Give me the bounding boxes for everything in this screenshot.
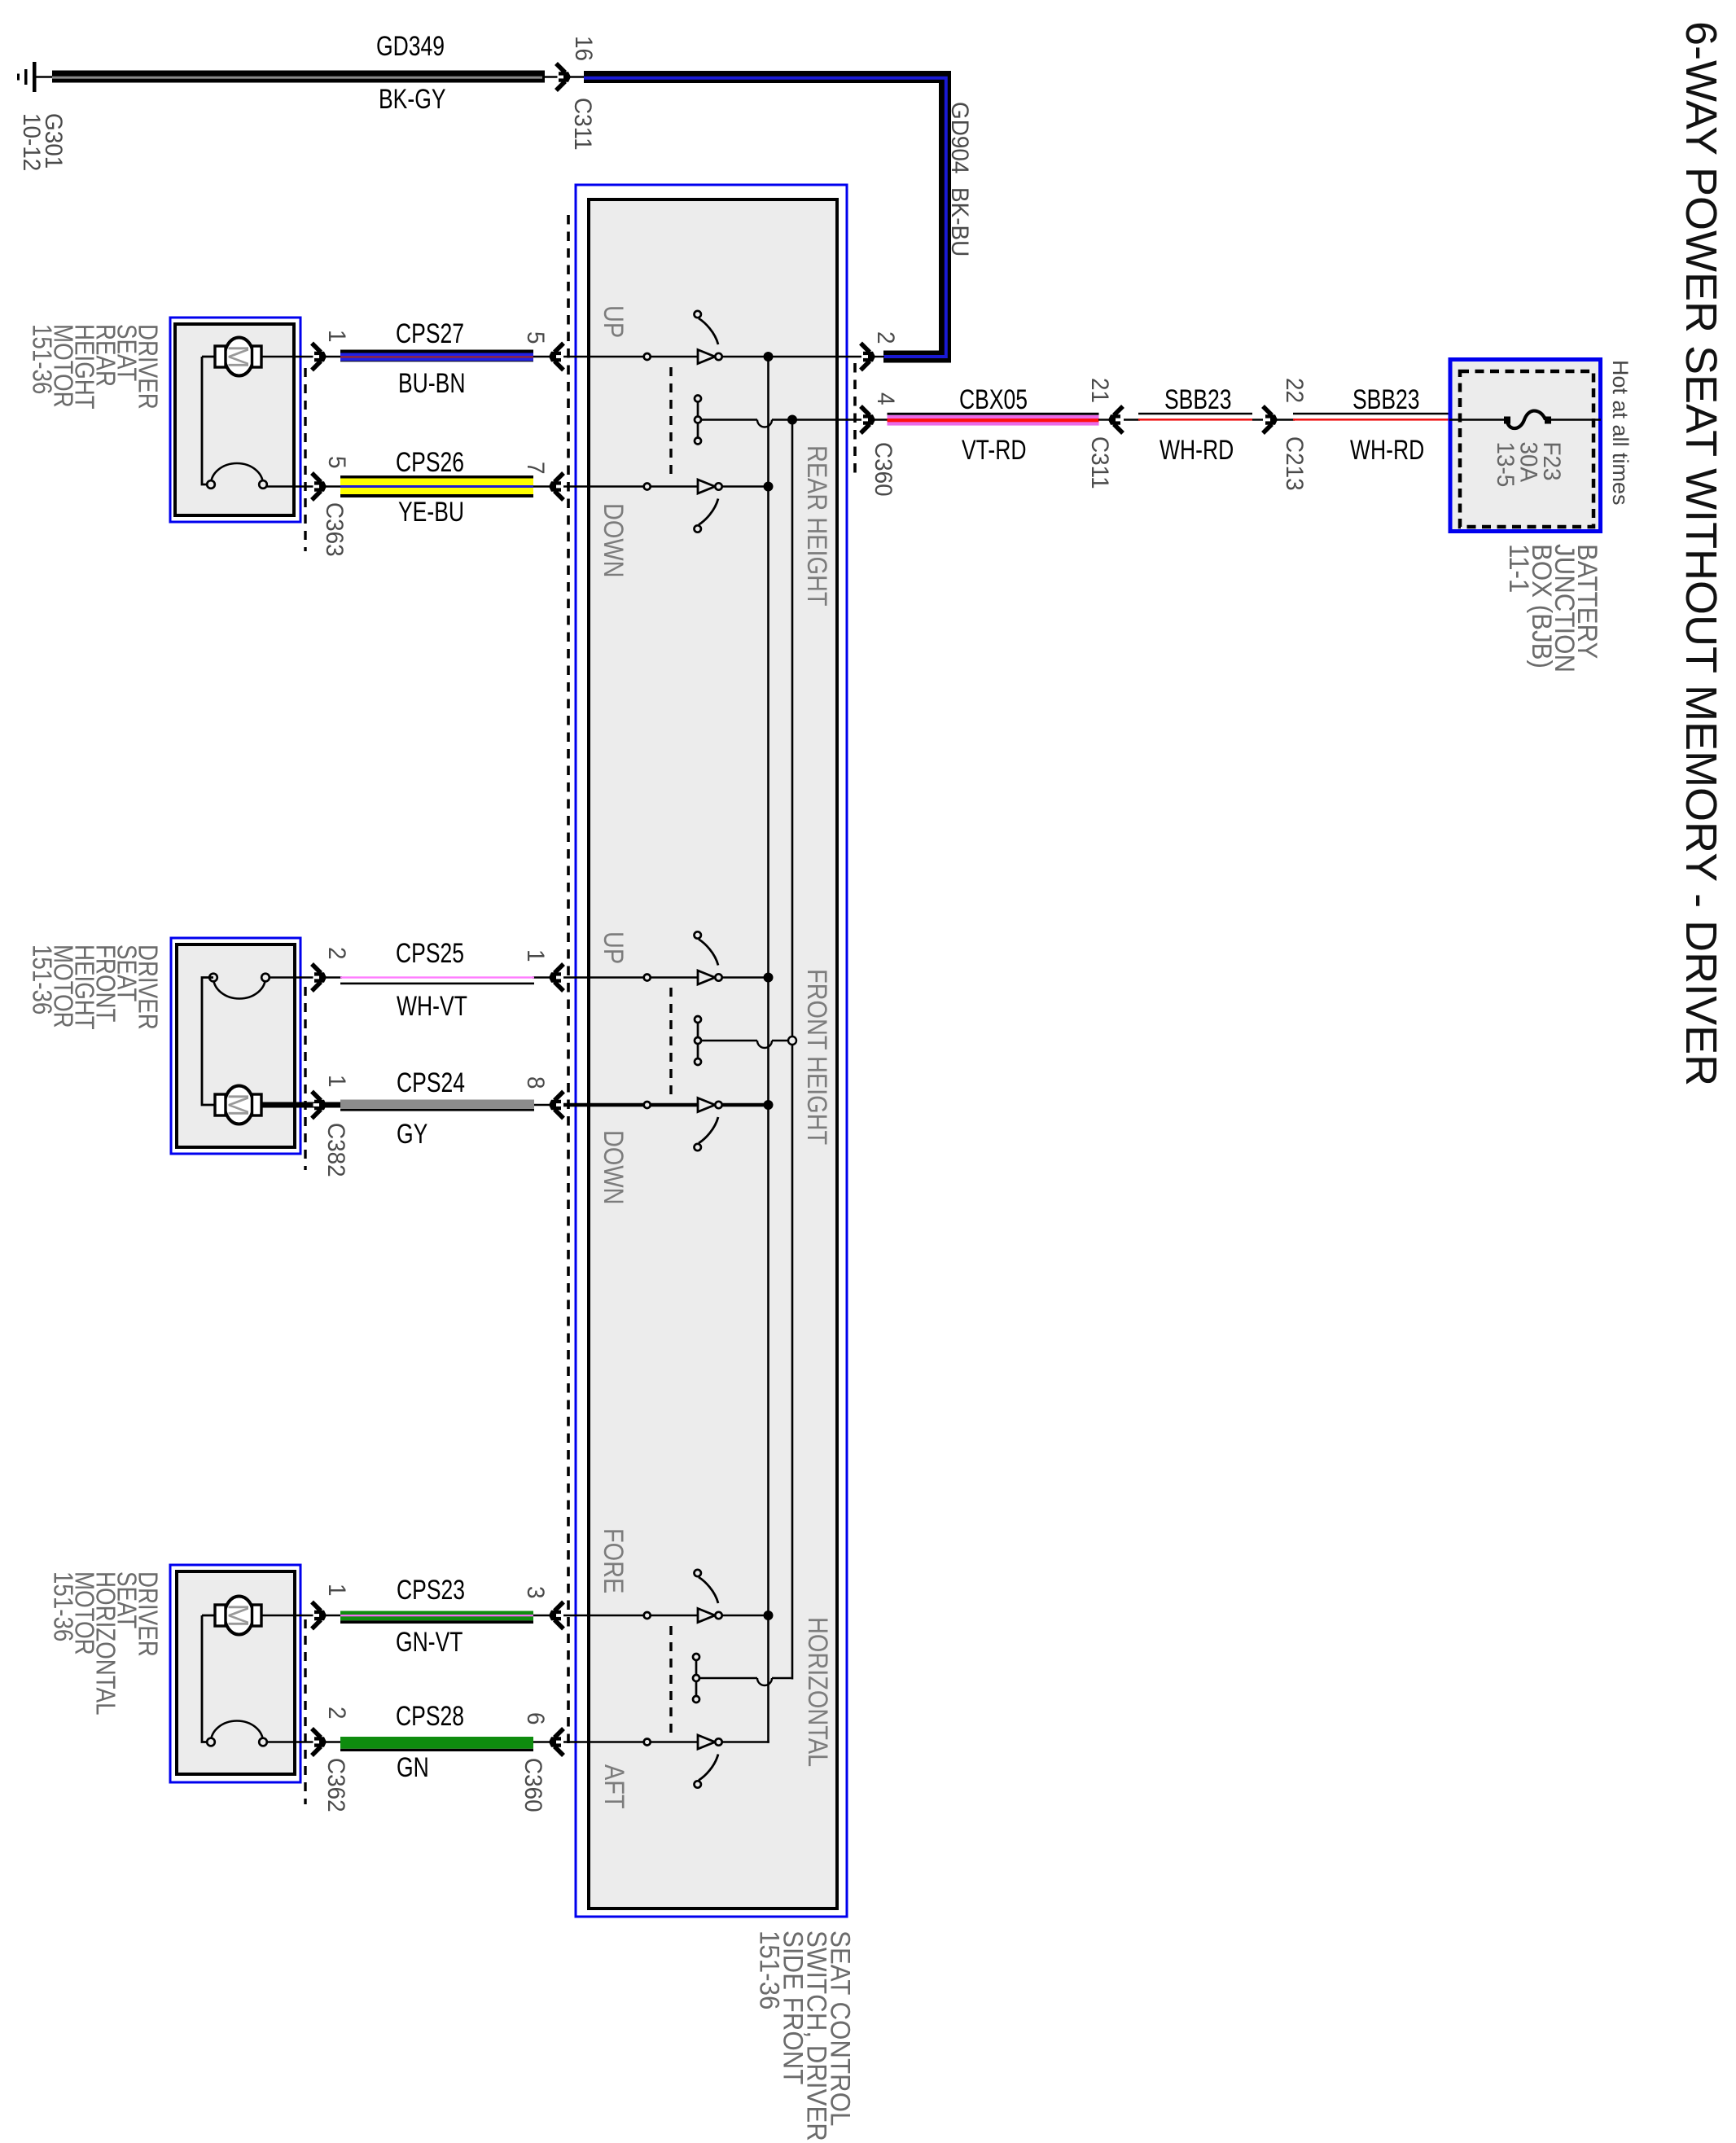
svg-text:CPS28: CPS28 xyxy=(396,1701,464,1732)
svg-text:WH-VT: WH-VT xyxy=(397,991,467,1022)
svg-text:AFT: AFT xyxy=(598,1764,630,1809)
wire SBB23 WH-RD (segment 1) xyxy=(1124,413,1263,421)
wire row4 DOWN front (thick) xyxy=(563,1103,702,1107)
svg-text:CPS26: CPS26 xyxy=(396,447,464,478)
wire CPS28 GN xyxy=(326,1737,550,1751)
junction row4 xyxy=(764,1100,774,1110)
linkage dashed rear xyxy=(669,367,672,480)
wire GD349 BK-GY xyxy=(52,71,568,83)
svg-text:C311: C311 xyxy=(569,98,596,151)
bus A vertical xyxy=(767,357,769,1743)
svg-text:C362: C362 xyxy=(322,1758,349,1812)
arrow pin5 motor1 xyxy=(312,473,327,500)
battery junction box BJB xyxy=(1450,360,1601,532)
connector C363 dashed xyxy=(304,368,306,551)
wire row1 UP rear xyxy=(563,356,702,357)
svg-text:GD349: GD349 xyxy=(376,31,445,62)
motor box front height xyxy=(171,938,300,1154)
wire row3 UP front xyxy=(563,976,702,978)
svg-text:CPS25: CPS25 xyxy=(396,938,464,969)
svg-text:151-36: 151-36 xyxy=(27,944,57,1015)
svg-text:C360: C360 xyxy=(519,1758,546,1812)
svg-text:FRONT HEIGHT: FRONT HEIGHT xyxy=(801,969,833,1145)
motor M3 xyxy=(202,1615,217,1617)
svg-text:151-36: 151-36 xyxy=(754,1930,786,2009)
cell contacts front height xyxy=(644,931,722,984)
svg-text:151-36: 151-36 xyxy=(48,1571,78,1641)
linkage dashed horizontal xyxy=(669,1626,672,1736)
svg-text:1: 1 xyxy=(323,1075,350,1088)
arrow pin2 motor3 xyxy=(312,1729,327,1755)
svg-text:1: 1 xyxy=(323,1584,350,1597)
svg-text:UP: UP xyxy=(598,305,629,338)
svg-text:11-1: 11-1 xyxy=(1504,544,1536,593)
wire row6 AFT xyxy=(563,1741,702,1742)
connector C360 dashed boundary left xyxy=(567,215,570,1743)
junction row5 xyxy=(764,1611,774,1620)
junction row3 xyxy=(764,973,774,983)
pin 3 arrow xyxy=(549,1602,563,1629)
wire CPS27 BU-BN xyxy=(326,350,550,362)
connector arrow 22 C213 xyxy=(1263,406,1278,433)
label BATTERY JUNCTION BOX (BJB) 11-1 xyxy=(1504,544,1604,673)
bus B vertical xyxy=(791,420,794,1680)
motor M2 xyxy=(202,978,217,1106)
svg-text:2: 2 xyxy=(872,331,899,344)
wire CPS25 WH-VT xyxy=(326,976,550,984)
switch control box xyxy=(576,185,847,1917)
wire row5 FORE xyxy=(563,1615,702,1616)
svg-text:UP: UP xyxy=(598,931,629,964)
svg-text:BK-GY: BK-GY xyxy=(379,84,446,115)
label DRIVER SEAT HORIZONTAL MOTOR 151-36 xyxy=(48,1571,163,1716)
svg-text:FORE: FORE xyxy=(598,1528,629,1593)
svg-text:8: 8 xyxy=(522,1076,549,1089)
cell contacts rear height xyxy=(644,311,722,364)
ground G301 xyxy=(17,62,54,92)
svg-text:6: 6 xyxy=(522,1712,549,1725)
svg-text:151-36: 151-36 xyxy=(27,324,57,394)
arrow pin1 motor3 xyxy=(312,1602,327,1629)
label SEAT CONTROL SWITCH, DRIVER SIDE FRONT 151-36 xyxy=(754,1930,857,2141)
motor box horizontal xyxy=(170,1565,300,1782)
wire CPS23 GN-VT xyxy=(326,1611,550,1624)
wire SBB23 WH-RD (segment 2) xyxy=(1277,413,1449,421)
wire stub pin4 to CBX05 xyxy=(875,419,889,420)
svg-text:1: 1 xyxy=(522,949,549,962)
neutral contacts rear + feed to pin4 xyxy=(695,396,701,445)
svg-text:21: 21 xyxy=(1086,378,1113,403)
fuse F23 30A xyxy=(1504,411,1551,429)
svg-text:CPS24: CPS24 xyxy=(397,1067,465,1098)
wire row2 DOWN rear xyxy=(563,485,702,487)
motor box rear height xyxy=(170,318,300,522)
svg-text:C363: C363 xyxy=(321,502,348,557)
label DRIVER SEAT REAR HEIGHT MOTOR 151-36 xyxy=(27,324,163,410)
svg-text:7: 7 xyxy=(522,462,549,475)
svg-text:1: 1 xyxy=(323,330,350,343)
svg-text:GN-VT: GN-VT xyxy=(396,1627,462,1658)
neutral contacts front xyxy=(695,1016,701,1065)
svg-text:CPS23: CPS23 xyxy=(397,1575,465,1606)
svg-text:SBB23: SBB23 xyxy=(1352,384,1420,415)
svg-text:WH-RD: WH-RD xyxy=(1350,435,1424,466)
wire CPS26 YE-BU xyxy=(326,475,550,497)
brush contact arc M2 xyxy=(213,978,265,999)
svg-text:DOWN: DOWN xyxy=(598,1130,629,1204)
svg-text:4: 4 xyxy=(872,392,899,405)
arrow pin2 motor2 xyxy=(312,964,327,991)
svg-text:Hot at all times: Hot at all times xyxy=(1608,360,1633,506)
label DRIVER SEAT FRONT HEIGHT MOTOR 151-36 xyxy=(27,944,163,1030)
cell contacts horizontal xyxy=(644,1570,722,1623)
svg-text:10-12: 10-12 xyxy=(18,113,45,171)
svg-text:GY: GY xyxy=(397,1119,427,1150)
svg-text:16: 16 xyxy=(570,36,597,61)
pin 2 arrow right xyxy=(861,344,875,370)
svg-text:C311: C311 xyxy=(1086,436,1113,489)
pin 7 arrow xyxy=(549,473,563,500)
svg-text:3: 3 xyxy=(522,1586,549,1599)
svg-text:C382: C382 xyxy=(322,1123,349,1177)
neutral contacts horizontal xyxy=(693,1654,699,1703)
svg-text:GN: GN xyxy=(397,1752,429,1783)
connector arrow 21 C311 xyxy=(1108,406,1123,433)
pin 4 arrow right xyxy=(861,406,875,433)
connector C360 dashed boundary right xyxy=(853,363,857,477)
svg-text:GD904: GD904 xyxy=(946,102,973,173)
arrow pin1 motor1 xyxy=(312,344,327,370)
wire CPS24 GY xyxy=(326,1100,550,1111)
svg-text:DOWN: DOWN xyxy=(598,503,629,577)
brush contact arc M3 xyxy=(211,1721,263,1742)
junction row1 xyxy=(764,352,774,362)
svg-text:C213: C213 xyxy=(1281,436,1308,491)
pin 5 arrow xyxy=(549,344,563,370)
wire into fuse xyxy=(1449,419,1504,420)
svg-text:5: 5 xyxy=(522,331,549,344)
wire CBX05 VT-RD xyxy=(888,413,1111,426)
svg-text:2: 2 xyxy=(323,947,350,960)
linkage dashed front xyxy=(669,988,672,1099)
connector C382 dashed xyxy=(304,987,306,1170)
connector C362 dashed xyxy=(304,1619,306,1804)
pin 1 arrow xyxy=(549,964,563,991)
svg-text:YE-BU: YE-BU xyxy=(398,497,464,528)
junction row2 xyxy=(764,482,774,492)
pin 6 arrow xyxy=(549,1729,563,1755)
pin 8 arrow xyxy=(549,1092,563,1119)
wire GD904 BK-BU xyxy=(570,77,946,357)
svg-text:BU-BN: BU-BN xyxy=(398,368,466,399)
svg-text:WH-RD: WH-RD xyxy=(1160,435,1234,466)
svg-text:6-WAY POWER SEAT WITHOUT MEMOR: 6-WAY POWER SEAT WITHOUT MEMORY - DRIVER xyxy=(1677,21,1725,1086)
connector arrow 16 C311 xyxy=(556,64,571,90)
svg-text:13-5: 13-5 xyxy=(1492,442,1519,488)
svg-text:HORIZONTAL: HORIZONTAL xyxy=(802,1617,834,1767)
svg-text:CBX05: CBX05 xyxy=(959,384,1028,415)
svg-text:C360: C360 xyxy=(870,442,896,497)
svg-text:5: 5 xyxy=(323,456,350,469)
svg-text:REAR HEIGHT: REAR HEIGHT xyxy=(801,445,833,606)
svg-text:BK-BU: BK-BU xyxy=(946,187,973,256)
svg-text:2: 2 xyxy=(323,1707,350,1720)
arrow pin1 motor2 xyxy=(312,1092,327,1119)
motor M1 xyxy=(202,356,217,358)
svg-text:SBB23: SBB23 xyxy=(1164,384,1232,415)
svg-text:CPS27: CPS27 xyxy=(396,318,464,349)
svg-text:VT-RD: VT-RD xyxy=(962,435,1027,466)
svg-text:22: 22 xyxy=(1281,378,1308,403)
brush contact arc M1 xyxy=(211,463,263,484)
